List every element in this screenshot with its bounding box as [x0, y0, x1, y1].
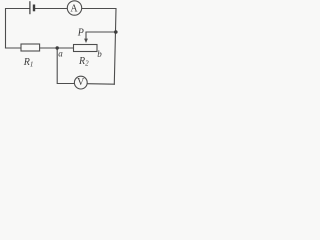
svg-text:a: a	[58, 49, 63, 59]
wire voltmeter branch left	[57, 48, 74, 84]
battery cell	[30, 1, 34, 14]
ammeter A	[67, 1, 81, 15]
wire slider branch	[86, 31, 116, 33]
wire ammeter to top-right corner	[82, 9, 116, 85]
resistor R2	[74, 45, 98, 52]
svg-text:b: b	[97, 49, 102, 59]
svg-text:V: V	[77, 77, 85, 88]
resistor R1	[21, 44, 40, 51]
wire battery to ammeter	[35, 8, 67, 10]
wire top-left segment	[6, 9, 30, 49]
voltmeter V	[74, 76, 87, 89]
wire voltmeter to right	[87, 83, 114, 86]
svg-text:A: A	[70, 4, 78, 15]
slider arrow P	[84, 32, 88, 43]
node a junction dot	[56, 46, 59, 49]
node junction dot right	[114, 30, 118, 34]
wire node a to R2	[57, 47, 73, 49]
wire left to R1	[6, 47, 22, 49]
svg-text:P: P	[77, 28, 84, 39]
wire R1 to node a	[40, 47, 58, 49]
